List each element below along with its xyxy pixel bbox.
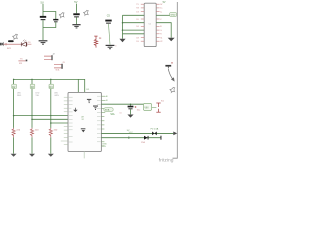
net label box — [30, 84, 35, 88]
junction — [122, 29, 124, 31]
wire — [42, 20, 44, 40]
wire — [31, 137, 33, 153]
wire loop to C2 — [43, 12, 56, 20]
svg-text:X1: X1 — [160, 37, 162, 39]
header J3 — [54, 65, 61, 68]
net label box VCC — [143, 103, 151, 110]
wire — [76, 17, 78, 24]
wire U2 to GND label — [156, 14, 169, 16]
ground — [119, 39, 125, 42]
header J2 — [44, 56, 51, 59]
svg-text:VCC: VCC — [129, 132, 134, 134]
wire — [123, 29, 145, 31]
resistor R2 vertical — [94, 36, 98, 48]
svg-text:D+: D+ — [160, 8, 162, 10]
svg-text:SDA: SDA — [105, 109, 110, 112]
resistor R5 — [49, 128, 52, 137]
svg-text:A1: A1 — [106, 99, 108, 102]
capacitor C6 — [128, 106, 134, 108]
annotation arrow — [168, 69, 173, 80]
ground — [29, 154, 35, 157]
wire U2 pin to bus — [123, 14, 145, 16]
svg-text:RX: RX — [19, 63, 23, 65]
ground — [106, 45, 115, 49]
ground inside U1 — [93, 106, 98, 111]
cursor glyph — [59, 13, 64, 18]
capacitor C2 — [53, 19, 58, 21]
diode D5 — [144, 136, 148, 140]
wire bus vertical — [122, 15, 124, 39]
wire U1 lower to diode — [101, 137, 160, 139]
LED branch 1 wire — [13, 79, 15, 128]
svg-text:X2: X2 — [160, 41, 162, 43]
U1 left outside stubs — [61, 97, 68, 145]
LED branch 2 wire — [31, 79, 33, 128]
wire U2 to ground — [156, 23, 171, 38]
svg-text:D3: D3 — [136, 11, 138, 13]
U2 left pin labels — [136, 4, 139, 43]
wire — [76, 4, 78, 14]
resistor R3 — [12, 128, 15, 137]
capacitor C6 tap — [130, 104, 132, 106]
wire — [4, 43, 21, 45]
end bar — [160, 136, 161, 140]
resistor R4 — [30, 128, 33, 137]
ground inside U1 — [81, 128, 86, 132]
wire — [109, 24, 111, 45]
capacitor C5 — [105, 20, 111, 22]
polyfuse F1 — [152, 132, 157, 136]
wire — [50, 137, 52, 153]
svg-text:fritzing: fritzing — [159, 157, 174, 162]
U1 inner left pin names — [69, 97, 73, 142]
wire — [27, 43, 31, 45]
switch S1 — [156, 103, 160, 112]
wire — [152, 107, 157, 109]
svg-text:VIN: VIN — [144, 106, 148, 109]
svg-text:RED: RED — [17, 95, 22, 97]
junction — [31, 79, 33, 81]
net label box — [49, 84, 54, 88]
junction — [130, 103, 132, 105]
svg-text:D8: D8 — [136, 37, 138, 39]
plus mark — [135, 106, 137, 108]
wire — [123, 33, 145, 35]
ground — [39, 40, 48, 44]
top bus wire — [14, 79, 85, 92]
svg-text:5V: 5V — [74, 0, 77, 4]
tick — [5, 43, 6, 45]
U2 right pin labels — [160, 4, 163, 43]
svg-text:D6: D6 — [136, 26, 138, 28]
svg-text:5V: 5V — [163, 1, 166, 4]
speaker BZ1 — [0, 42, 4, 47]
U1 bottom pin stub — [83, 152, 85, 159]
net label box — [12, 84, 17, 88]
ground — [72, 24, 80, 28]
header J1 — [18, 60, 25, 62]
wire U1 to output arrow — [101, 132, 173, 134]
wire drop to U1 pin — [77, 79, 79, 92]
IC U2 — [144, 3, 156, 46]
junction — [50, 79, 52, 81]
svg-text:D9: D9 — [136, 41, 138, 43]
U1 right outside stubs — [101, 96, 105, 146]
ground — [48, 154, 54, 157]
LED D1 — [21, 42, 27, 46]
svg-text:GND: GND — [171, 15, 176, 17]
svg-text:GRN: GRN — [54, 95, 59, 97]
cursor glyph — [12, 34, 17, 39]
LED arrows — [23, 40, 26, 42]
cursor glyph — [83, 10, 88, 15]
buzzer body bar — [8, 40, 14, 42]
LED branch 3 wire — [50, 79, 52, 128]
wire — [13, 137, 15, 153]
tick — [128, 136, 130, 139]
ground — [11, 154, 17, 157]
arrowhead — [173, 132, 177, 136]
net label GND box — [170, 13, 177, 17]
junction — [122, 22, 124, 24]
wire tap 1 to U1 — [14, 115, 68, 117]
svg-text:F1 0.5A: F1 0.5A — [151, 128, 159, 131]
wire — [42, 4, 44, 16]
wire tap 2 to U1 — [32, 118, 68, 120]
svg-text:VIN: VIN — [102, 146, 106, 148]
sheet border right edge — [173, 2, 178, 158]
junction — [31, 119, 33, 121]
svg-text:A0: A0 — [106, 95, 108, 98]
ground — [168, 38, 175, 41]
cursor glyph — [170, 87, 175, 92]
junction — [50, 122, 52, 124]
svg-text:D5: D5 — [136, 19, 138, 21]
U2 left pin stubs — [141, 4, 144, 41]
svg-text:5V: 5V — [41, 0, 44, 4]
ground inside U1 — [87, 99, 91, 103]
junction — [13, 115, 15, 117]
arrow inside U1 — [74, 108, 76, 110]
ground — [127, 115, 133, 118]
wire — [43, 22, 56, 27]
capacitor C4 — [73, 13, 79, 15]
wire U1 right to C6 and label — [101, 103, 143, 105]
IC U1 — [68, 92, 101, 151]
U1 inner right pin names — [97, 96, 101, 142]
annotation component near border — [165, 65, 171, 67]
green label text — [104, 108, 113, 112]
wire tap 3 to U1 — [51, 122, 68, 124]
svg-text:C6: C6 — [119, 112, 121, 114]
wire — [123, 22, 145, 24]
capacitor C1 — [40, 16, 46, 18]
U1 right pin labels — [106, 95, 108, 110]
svg-text:SCL: SCL — [110, 114, 115, 116]
junction — [13, 79, 15, 81]
U2 right pin stubs — [156, 4, 159, 41]
